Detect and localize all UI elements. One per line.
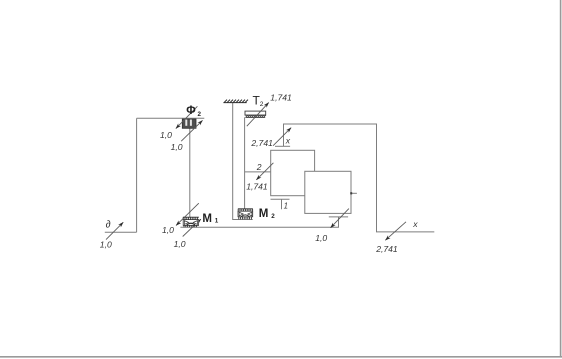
svg-text:x: x [412, 219, 418, 229]
terminal 1 under block 1 (bar and stem) [271, 199, 290, 209]
svg-text:1,0: 1,0 [315, 233, 327, 243]
signal arrows [106, 103, 406, 241]
arrow at right x output (down-left, 2,741) [385, 222, 406, 240]
wire: horizontal into block 1 [245, 171, 271, 173]
T2 hatch strip [245, 115, 266, 117]
page border bottom [0, 356, 562, 358]
svg-text:2: 2 [256, 162, 262, 172]
arrow at T2 (up-right, 1,741) [247, 103, 269, 127]
mass M2 (friction mass symbol) [238, 209, 253, 220]
arrow at F2 (down-left, 1,0) [176, 106, 198, 128]
wire: stem from damper F2 down to mass M1 [189, 128, 191, 217]
wire: top-right long line [284, 124, 435, 232]
page border right [560, 0, 562, 357]
svg-text:Φ: Φ [186, 105, 196, 117]
arrow at F2 (up-right, 1,0) [181, 120, 202, 141]
arrow at source d (up-right, 1,0) [106, 222, 123, 239]
block 2 (overlaps block 1) [305, 171, 351, 213]
node: terminal bar under block 2 [329, 216, 348, 218]
svg-text:M: M [259, 208, 269, 220]
svg-text:1: 1 [215, 218, 219, 225]
svg-text:1,0: 1,0 [160, 130, 172, 140]
svg-text:2,741: 2,741 [250, 138, 273, 148]
mass M1 (friction mass symbol) [183, 217, 199, 227]
junction dot on block 2 right edge [350, 192, 352, 194]
svg-text:1,0: 1,0 [100, 240, 112, 250]
svg-text:1: 1 [284, 201, 288, 210]
svg-text:2: 2 [198, 111, 202, 118]
tick on right of block 2 [351, 192, 357, 194]
svg-text:∂: ∂ [106, 220, 111, 231]
arrow under block2 (down-left, 1,0) [331, 209, 349, 228]
svg-text:M: M [202, 213, 212, 225]
node: terminal bar for x source (top) [275, 145, 290, 147]
wire: stem from T2 plate down to M2 top [244, 117, 246, 209]
wire: left vertical of left loop [136, 118, 138, 232]
friction element T2 plate [245, 111, 266, 118]
wire: bottom-left horizontal to source [105, 231, 137, 233]
arrow at M1 (down-left, 1,0) [176, 203, 199, 225]
block 1 [271, 150, 315, 195]
svg-text:1,0: 1,0 [174, 239, 186, 249]
svg-text:1,741: 1,741 [246, 182, 268, 192]
wall (fixed support) hatching [223, 100, 248, 103]
arrow at M1 (up-right, 1,0) [183, 219, 201, 236]
wire: main bottom bus [180, 217, 338, 227]
svg-text:x: x [285, 135, 291, 145]
arrow at top x source (up-right, 2,741) [273, 128, 291, 146]
svg-text:2,741: 2,741 [375, 244, 398, 254]
wire: stem from wall down left of M2 [233, 103, 253, 220]
wire: top line of left loop (through damper F2) [137, 117, 205, 119]
svg-text:2: 2 [271, 213, 275, 220]
arrow at block1 input (down-left, 2 / 1,741) [256, 163, 273, 180]
svg-text:1,0: 1,0 [171, 142, 183, 152]
svg-text:1,741: 1,741 [270, 93, 292, 103]
svg-text:2: 2 [260, 101, 264, 108]
svg-text:1,0: 1,0 [162, 225, 174, 235]
damper F2 body (dark block with slots) [182, 119, 196, 128]
